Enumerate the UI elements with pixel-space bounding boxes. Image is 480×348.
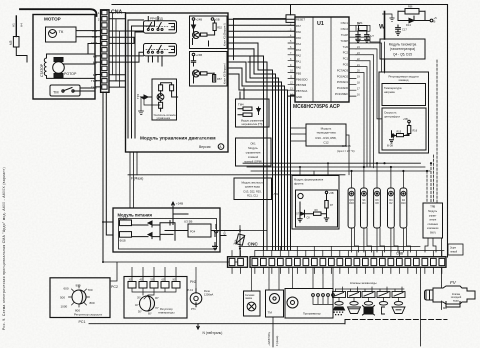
resistor R66 bbox=[398, 6, 425, 15]
svg-text:30°: 30° bbox=[137, 297, 141, 300]
svg-text:РС7/АD3: РС7/АD3 bbox=[337, 68, 349, 72]
svg-text:РВ5: РВ5 bbox=[296, 71, 302, 75]
svg-text:~220В 50Гц: ~220В 50Гц bbox=[267, 331, 271, 346]
N neutral bus bbox=[89, 320, 447, 336]
wire TM->CNA bbox=[77, 81, 101, 91]
bundle top elbows bbox=[248, 56, 295, 96]
svg-text:воды: воды bbox=[453, 299, 459, 302]
svg-text:SН3: SН3 bbox=[91, 41, 97, 45]
svg-text:ТМ7: ТМ7 bbox=[91, 79, 97, 83]
svg-text:центрифуги: центрифуги bbox=[384, 115, 400, 119]
programmer box bbox=[285, 267, 334, 318]
svg-text:Модуль тахометра: Модуль тахометра bbox=[389, 43, 417, 47]
svg-text:RЕSЕТ: RЕSЕТ bbox=[296, 18, 305, 22]
svg-text:нагревателем (ГН): нагревателем (ГН) bbox=[242, 123, 263, 126]
svg-text:РС1: РС1 bbox=[343, 57, 349, 61]
fan-out rows bbox=[239, 247, 444, 251]
svg-text:левый: левый bbox=[450, 251, 458, 254]
svg-text:1000: 1000 bbox=[61, 305, 68, 309]
wire U1->tacho bbox=[356, 37, 380, 42]
svg-text:управления: управления bbox=[157, 117, 171, 120]
svg-text:СNВ: СNВ bbox=[396, 252, 404, 256]
edge forming module box bbox=[292, 176, 339, 230]
svg-text:Модуль: Модуль bbox=[428, 210, 438, 213]
svg-text:65°: 65° bbox=[162, 280, 166, 282]
valve icon shower bbox=[334, 307, 345, 315]
svg-text:U3 5В: U3 5В bbox=[184, 220, 192, 224]
svg-text:Н4: Н4 bbox=[20, 23, 24, 27]
svg-text:нагрева: нагрева bbox=[384, 90, 395, 94]
svg-text:Модуль: Модуль bbox=[248, 146, 258, 150]
thermal switch TM bbox=[50, 85, 80, 96]
svg-text:Программатор: Программатор bbox=[303, 312, 321, 316]
wire elbows down bbox=[239, 43, 288, 90]
right risers bbox=[421, 238, 442, 346]
regulator U3 bbox=[184, 220, 211, 238]
svg-text:Версия: Версия bbox=[199, 145, 211, 149]
svg-text:ТК: ТК bbox=[59, 29, 64, 34]
svg-text:70°: 70° bbox=[155, 307, 159, 310]
svg-text:60°: 60° bbox=[148, 313, 152, 316]
svg-text:90°: 90° bbox=[155, 297, 159, 300]
svg-text:55°: 55° bbox=[151, 280, 155, 282]
motor control module box bbox=[126, 13, 229, 152]
svg-text:D13, D22, R53,: D13, D22, R53, bbox=[244, 190, 262, 194]
pin stubs above strip right bbox=[348, 251, 442, 257]
svg-text:R66: R66 bbox=[408, 6, 413, 9]
svg-text:U1: U1 bbox=[317, 21, 324, 27]
wire tacho->CNA bbox=[76, 30, 101, 32]
svg-text:РС2: РС2 bbox=[343, 51, 349, 55]
svg-text:(при t = 22 °С): (при t = 22 °С) bbox=[337, 149, 355, 153]
svg-text:GND: GND bbox=[296, 95, 302, 99]
rotor bbox=[53, 58, 77, 78]
svg-text:М3: М3 bbox=[9, 40, 13, 45]
svg-text:45°: 45° bbox=[140, 280, 144, 282]
junction dots bus bbox=[350, 162, 432, 172]
valve switch row bbox=[333, 287, 406, 305]
svg-text:МС68НС705Р6 АСР: МС68НС705Р6 АСР bbox=[293, 104, 341, 110]
mains input wire bbox=[267, 317, 279, 347]
svg-text:ТСАР: ТСАР bbox=[341, 33, 348, 37]
svg-text:Н1: Н1 bbox=[12, 23, 16, 27]
svg-text:РВ7/SСА: РВ7/SСА bbox=[296, 89, 308, 93]
diode D1 bbox=[132, 221, 161, 227]
CNA pin labels bbox=[91, 11, 100, 89]
svg-text:уровня воды: уровня воды bbox=[245, 185, 260, 188]
svg-text:РС4/АD0: РС4/АD0 bbox=[337, 86, 349, 90]
svg-text:30°: 30° bbox=[129, 280, 133, 282]
svg-text:сливным: сливным bbox=[428, 223, 439, 226]
svg-text:900: 900 bbox=[76, 284, 81, 288]
svg-text:Ф-D8: Ф-D8 bbox=[387, 145, 394, 148]
driver key K1 box bbox=[190, 16, 228, 49]
svg-text:М6: М6 bbox=[93, 54, 98, 58]
svg-text:+5В: +5В bbox=[215, 18, 220, 22]
svg-text:F (Фаза): F (Фаза) bbox=[131, 177, 143, 181]
pump control module box bbox=[236, 138, 272, 166]
svg-text:Ключ К3 Версия I: Ключ К3 Версия I bbox=[223, 63, 227, 84]
svg-text:FV: FV bbox=[450, 280, 457, 285]
svg-text:+24В: +24В bbox=[176, 202, 183, 206]
svg-text:500: 500 bbox=[60, 296, 65, 300]
svg-text:РА2: РА2 bbox=[296, 54, 301, 58]
diode D2 bbox=[132, 233, 161, 239]
relay K2 bbox=[144, 44, 177, 67]
svg-text:ТМ: ТМ bbox=[268, 311, 273, 315]
power module box bbox=[113, 208, 220, 252]
water level module box bbox=[234, 178, 272, 200]
W line down bbox=[384, 59, 386, 72]
svg-text:600: 600 bbox=[64, 287, 69, 291]
svg-text:ТЯВ: ТЯВ bbox=[430, 206, 435, 209]
strip stubs up bbox=[232, 247, 340, 257]
svg-text:Рис. 9. Схема электрическая пр: Рис. 9. Схема электрическая принципиальн… bbox=[2, 167, 6, 330]
diode D14 bbox=[398, 11, 430, 27]
CNC plug symbol bbox=[233, 226, 267, 257]
U1 left pins bbox=[288, 25, 295, 96]
motor box bbox=[33, 15, 95, 100]
tacho module box bbox=[380, 39, 425, 59]
node dots CNA bbox=[102, 221, 104, 263]
svg-text:РН2: РН2 bbox=[190, 280, 196, 284]
svg-text:Q4 - Q5, D15: Q4 - Q5, D15 bbox=[393, 53, 412, 57]
resistor M3 bbox=[9, 16, 27, 62]
TP2 input diode bbox=[136, 93, 160, 114]
front module top stubs bbox=[300, 163, 328, 175]
svg-text:команд: команд bbox=[399, 78, 409, 82]
svg-text:ОSС1: ОSС1 bbox=[341, 21, 349, 25]
svg-text:Зщип: Зщип bbox=[450, 247, 457, 250]
drain valve module box TYaV bbox=[423, 203, 443, 238]
svg-text:РС6/АD2: РС6/АD2 bbox=[337, 74, 349, 78]
svg-text:ТМ4: ТМ4 bbox=[238, 103, 244, 107]
ground near crystal bbox=[383, 14, 395, 21]
long link row bbox=[103, 262, 238, 281]
driver key K3 box bbox=[190, 52, 228, 87]
svg-text:50°: 50° bbox=[138, 311, 142, 314]
+5V terminal bbox=[430, 16, 437, 24]
svg-text:Модуль формирования: Модуль формирования bbox=[294, 178, 324, 182]
valve icon basin2 bbox=[392, 307, 405, 314]
svg-text:Регулятор: Регулятор bbox=[160, 307, 173, 311]
tacho TK bbox=[46, 27, 77, 42]
svg-text:2: 2 bbox=[98, 17, 100, 21]
svg-text:РР4203Д: РР4203Д bbox=[150, 17, 163, 21]
svg-text:Ф01В: Ф01В bbox=[120, 240, 126, 243]
cap C17 bbox=[396, 25, 408, 35]
heater control module box bbox=[236, 99, 270, 127]
phase W label bbox=[379, 12, 386, 40]
crystal DZ1 bbox=[356, 21, 375, 42]
CNB pin squares bbox=[229, 258, 445, 265]
svg-text:управ-: управ- bbox=[429, 214, 437, 217]
svg-text:Т1/0: Т1/0 bbox=[343, 45, 349, 49]
svg-text:D10: D10 bbox=[401, 202, 406, 205]
amplifier box bbox=[152, 79, 178, 120]
svg-text:МОТОР: МОТОР bbox=[44, 17, 61, 22]
TYaV wires bbox=[427, 60, 437, 203]
svg-text:ОSС2: ОSС2 bbox=[341, 27, 349, 31]
svg-text:помпой (ОРМ): помпой (ОРМ) bbox=[244, 160, 262, 164]
svg-text:РС5/АD1: РС5/АD1 bbox=[337, 80, 349, 84]
svg-text:D14: D14 bbox=[406, 23, 411, 27]
temperature select submodule bbox=[382, 84, 426, 106]
svg-text:РС3/VRЕF: РС3/VRЕF bbox=[335, 92, 348, 96]
stator winding bbox=[40, 56, 47, 78]
varistor VA2 bbox=[120, 232, 132, 243]
svg-text:РС2: РС2 bbox=[111, 285, 118, 289]
horizontal bus lines bbox=[128, 163, 430, 175]
svg-text:С12: С12 bbox=[323, 141, 329, 145]
svg-text:R21, С11: R21, С11 bbox=[247, 193, 258, 197]
spin speed submodule bbox=[382, 108, 426, 150]
connector CNB strip bbox=[228, 252, 447, 268]
svg-text:РА0: РА0 bbox=[296, 66, 301, 70]
speed selector box bbox=[50, 278, 110, 318]
svg-text:R16: R16 bbox=[413, 130, 418, 133]
svg-text:М8: М8 bbox=[93, 73, 98, 77]
svg-text:+5В: +5В bbox=[403, 117, 408, 121]
module internal bus bbox=[128, 20, 155, 138]
output drivers Q/D column bbox=[348, 188, 407, 228]
svg-text:D93: D93 bbox=[349, 202, 354, 205]
adjustable modules box bbox=[379, 72, 429, 153]
valve icon no-wash bbox=[363, 306, 375, 316]
svg-text:РОТОР: РОТОР bbox=[64, 72, 77, 76]
door lock TM bbox=[266, 267, 284, 317]
svg-text:МВ: МВ bbox=[443, 306, 447, 310]
svg-text:DZ1: DZ1 bbox=[357, 21, 363, 25]
U3 wires bbox=[165, 208, 240, 250]
temperature regulator box bbox=[124, 277, 187, 319]
svg-text:РА4: РА4 bbox=[296, 42, 301, 46]
connector CNA bbox=[101, 10, 123, 93]
svg-text:ЛУА: ЛУА bbox=[274, 192, 280, 196]
svg-text:Реле: Реле bbox=[204, 289, 210, 293]
svg-text:термодатчика: термодатчика bbox=[316, 131, 336, 135]
svg-text:РО4: РО4 bbox=[190, 230, 196, 234]
svg-text:ТМ: ТМ bbox=[53, 91, 58, 95]
svg-text:700: 700 bbox=[88, 288, 93, 292]
svg-text:РВ7/SDI: РВ7/SDI bbox=[296, 83, 307, 87]
svg-text:М3: М3 bbox=[93, 61, 98, 65]
valve icon basin bbox=[348, 307, 361, 314]
svg-text:R16 - R19, R58,: R16 - R19, R58, bbox=[316, 136, 337, 140]
svg-text:Ключ К1 (Версия I): Ключ К1 (Версия I) bbox=[223, 23, 227, 46]
MCU U1 bbox=[234, 5, 350, 111]
svg-text:РС1: РС1 bbox=[79, 320, 86, 324]
svg-text:В: В bbox=[434, 20, 436, 24]
U1 right pins bbox=[349, 25, 356, 96]
svg-text:Клапаны залива воды: Клапаны залива воды bbox=[350, 281, 377, 285]
svg-text:РС0: РС0 bbox=[343, 63, 349, 67]
svg-text:ТК2: ТК2 bbox=[92, 35, 98, 39]
svg-text:ТМ6: ТМ6 bbox=[91, 85, 97, 89]
svg-text:РА5: РА5 bbox=[296, 36, 301, 40]
svg-text:800: 800 bbox=[90, 301, 95, 305]
svg-text:клапаном: клапаном bbox=[427, 227, 438, 230]
svg-text:N (нейтраль): N (нейтраль) bbox=[203, 331, 223, 335]
board frame top/right bbox=[112, 5, 448, 258]
+24V arrow bbox=[172, 202, 183, 209]
svg-text:лампа: лампа bbox=[245, 297, 253, 300]
driver out wires bbox=[352, 228, 411, 252]
wires bundle->alarm bbox=[291, 128, 350, 175]
valve icon half bbox=[382, 307, 385, 314]
CNA down wires bbox=[103, 92, 113, 262]
svg-text:СТАТОР: СТАТОР bbox=[40, 63, 44, 77]
alarm module box bbox=[306, 124, 346, 146]
svg-text:R15: R15 bbox=[397, 131, 402, 134]
power out node bbox=[220, 235, 226, 237]
svg-text:Модуль жесткости: Модуль жесткости bbox=[241, 181, 264, 185]
pin stubs below strip bbox=[232, 267, 442, 273]
trimmer stubs to CNB bbox=[132, 267, 196, 292]
svg-text:R57: R57 bbox=[217, 77, 222, 81]
svg-text:(тахогенератора): (тахогенератора) bbox=[390, 47, 415, 51]
svg-text:ВА1зА: ВА1зА bbox=[120, 217, 128, 220]
vertical bundle bbox=[264, 56, 291, 250]
cap C19 bbox=[160, 221, 175, 241]
svg-text:+24В: +24В bbox=[196, 18, 203, 22]
svg-text:Модуль управления двигателем: Модуль управления двигателем bbox=[140, 136, 216, 141]
svg-text:ления: ления bbox=[429, 219, 437, 222]
svg-text:ТСМР: ТСМР bbox=[340, 39, 348, 43]
svg-text:SН10В: SН10В bbox=[342, 144, 351, 148]
svg-text:F (фаза): F (фаза) bbox=[275, 336, 279, 346]
svg-text:R52: R52 bbox=[217, 26, 222, 30]
svg-text:С17: С17 bbox=[402, 28, 407, 32]
svg-text:ОК1: ОК1 bbox=[250, 142, 256, 146]
mains feed wire bbox=[20, 9, 97, 16]
driver feed wires bbox=[352, 163, 404, 188]
svg-text:90°: 90° bbox=[173, 280, 177, 282]
wire stator->CNA bbox=[47, 44, 102, 57]
relay K1 bbox=[144, 17, 177, 34]
svg-text:+24В: +24В bbox=[196, 53, 203, 57]
wire tacho2->CNA bbox=[76, 36, 101, 38]
version mark A bbox=[199, 144, 224, 150]
svg-text:ТК3: ТК3 bbox=[92, 29, 98, 33]
svg-text:РА3: РА3 bbox=[296, 48, 301, 52]
svg-text:Р-13: Р-13 bbox=[188, 288, 194, 292]
svg-text:1200мА: 1200мА bbox=[204, 293, 214, 297]
wire rotor->CNA bbox=[63, 62, 101, 64]
varistor VA1 bbox=[120, 217, 132, 225]
wire stator2->CNA bbox=[47, 75, 102, 79]
svg-text:ТР2: ТР2 bbox=[136, 93, 140, 99]
CNA pin squares bbox=[102, 10, 107, 89]
aux connector right bbox=[448, 244, 463, 255]
svg-text:РВ6/SDО: РВ6/SDО bbox=[296, 77, 308, 81]
svg-text:управления: управления bbox=[246, 152, 261, 155]
svg-text:РА6: РА6 bbox=[296, 30, 301, 34]
svg-text:сливной: сливной bbox=[248, 155, 259, 159]
cap C20 bbox=[214, 225, 218, 233]
pressure relay P13 bbox=[188, 288, 214, 311]
svg-text:(WV): (WV) bbox=[430, 232, 436, 235]
svg-text:температуры: температуры bbox=[158, 312, 174, 315]
svg-text:РА7: РА7 bbox=[296, 24, 301, 28]
svg-text:РА1: РА1 bbox=[296, 60, 301, 64]
mains lamp bbox=[244, 267, 261, 316]
svg-text:40°: 40° bbox=[135, 304, 139, 307]
svg-text:РТ1: РТ1 bbox=[191, 307, 196, 311]
svg-text:1: 1 bbox=[98, 11, 100, 15]
svg-text:Регулятор скорости: Регулятор скорости bbox=[74, 313, 102, 317]
inlet valve FV bbox=[425, 286, 476, 310]
CNA->module wires bbox=[109, 13, 144, 88]
wires U1->adjustable modules bbox=[356, 42, 385, 168]
svg-text:+5В: +5В bbox=[329, 192, 334, 195]
module->U1 wires bbox=[228, 19, 295, 74]
svg-text:фронта: фронта bbox=[294, 181, 304, 185]
